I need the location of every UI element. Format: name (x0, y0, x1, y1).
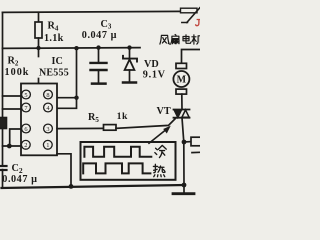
svg-text:0.047 µ: 0.047 µ (2, 174, 37, 185)
wire pin3 to R5 (57, 127, 104, 129)
capacitor C3 plates (91, 62, 107, 64)
node R4/vcc rail (36, 46, 40, 50)
diode VD zener bar (123, 56, 137, 62)
wire to right resistor (184, 141, 191, 143)
wire vcc drop (76, 48, 78, 98)
pin 6 circle (22, 124, 31, 133)
text 冷 (cold) hand-drawn glyph (155, 145, 166, 157)
svg-text:M: M (177, 75, 187, 86)
wire pin2 to rail (3, 145, 22, 147)
svg-text:0.047 µ: 0.047 µ (82, 30, 117, 41)
motor M brush top (176, 63, 187, 68)
pin 1 circle (43, 140, 52, 149)
wire VD bottom lead (129, 70, 131, 81)
glyph 电 (183, 35, 191, 43)
pin 4 circle (44, 103, 53, 112)
glyph 扇 (171, 35, 179, 45)
motor M circle (173, 71, 189, 87)
svg-text:8: 8 (46, 92, 49, 99)
svg-text:2: 2 (24, 142, 27, 149)
wire top rail (3, 11, 181, 12)
wire triac anode down (182, 118, 184, 185)
ground under VD (123, 81, 136, 84)
wire motor feed from right edge (182, 50, 201, 64)
svg-text:6: 6 (24, 126, 27, 133)
wire right edge lower (192, 151, 200, 153)
wire pin1 to ground rail (57, 154, 71, 186)
wire C3 bottom lead (98, 70, 100, 83)
triac VT top bar (174, 109, 190, 111)
motor M brush bottom (176, 89, 187, 94)
svg-text:1.1k: 1.1k (44, 33, 64, 44)
glyph 风 (160, 35, 169, 44)
relay contact J box (181, 8, 198, 13)
resistor R1 body (on left rail) (0, 118, 7, 129)
diode VD triangle (125, 60, 135, 71)
pin 3 circle (44, 124, 53, 133)
arrow head (163, 126, 171, 134)
wire R4 bottom lead (38, 38, 40, 48)
wire VD top lead (129, 48, 131, 59)
wire motor to triac (181, 94, 183, 109)
pin 5 circle (22, 90, 31, 99)
node triac anode (182, 140, 187, 145)
arrow waveform to gate (149, 129, 167, 143)
wire reset stub upper (38, 48, 40, 57)
triac VT right triangle (182, 110, 189, 117)
wire pin8 (57, 97, 77, 99)
wire R4 top lead (38, 12, 40, 22)
node C3 rail (96, 45, 100, 49)
wire left rail lower (2, 170, 4, 188)
waveform box (81, 142, 176, 180)
capacitor C2 plates (on left rail) (0, 165, 7, 167)
ground under C3 (92, 82, 106, 85)
glyph 机 (partially cut at edge) (192, 35, 202, 44)
pin circles (21, 90, 52, 149)
node VD rail (127, 45, 131, 49)
svg-text:1: 1 (46, 142, 49, 149)
wire pin5 to rail (3, 95, 22, 97)
svg-text:NE555: NE555 (39, 67, 69, 78)
text 热 (hot) hand-drawn glyph (153, 164, 165, 176)
node pin1 ground (69, 184, 74, 189)
svg-text:3: 3 (46, 126, 49, 133)
waveform cold trace (84, 147, 151, 157)
node vcc drop top (74, 46, 78, 50)
node ground junction (182, 183, 187, 188)
node trigger junction (7, 144, 12, 149)
triac VT left triangle (174, 110, 181, 118)
svg-text:5: 5 (24, 92, 27, 99)
wire reset stub lower (38, 79, 40, 84)
op-amp U1 IC NE555 box (21, 84, 57, 156)
ground bar main (173, 192, 194, 195)
pin 2 circle (21, 140, 30, 149)
pin 8 circle (44, 90, 53, 99)
label J (red, drawn) (196, 20, 201, 26)
triac VT bottom bar (174, 117, 190, 119)
wire pin8-pin4 jog (57, 98, 77, 109)
wire bottom rail (2, 185, 185, 188)
text 风扇电机 (fan motor) hand-drawn glyphs (160, 35, 202, 45)
resistor (right edge, unlabeled) (191, 137, 202, 146)
wire left rail upper (2, 12, 4, 166)
waveform hot trace (83, 163, 150, 173)
wire vcc rail (3, 47, 141, 50)
relay contact J blade (187, 8, 200, 23)
resistor R5 (104, 125, 117, 131)
pin numbers (24, 92, 50, 149)
svg-text:IC: IC (52, 56, 63, 67)
wire pin6 lead (10, 129, 21, 146)
svg-text:1k: 1k (117, 111, 128, 122)
relay contact J foot (182, 22, 188, 24)
svg-text:100k: 100k (5, 67, 30, 78)
wire C3 top lead (98, 48, 100, 62)
resistor R4 (35, 22, 42, 38)
ground stem main (183, 185, 185, 193)
svg-text:9.1V: 9.1V (143, 69, 166, 80)
wire R5 to triac gate (116, 119, 175, 129)
pin 7 circle (22, 103, 31, 112)
svg-text:VT: VT (157, 106, 171, 117)
wire pin7 to rail (3, 108, 22, 110)
node pin8 tee (74, 96, 78, 100)
